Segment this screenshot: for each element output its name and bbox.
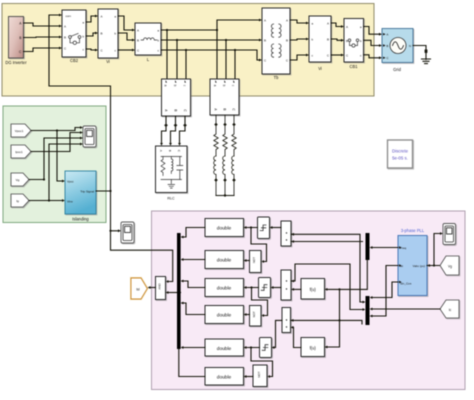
block Relay 3 [259,278,271,298]
junction a-tap1 [166,29,168,31]
block Relay 1 [258,217,270,239]
junction f-branch [338,288,340,290]
wire double5 to bus [184,347,206,349]
tag From Ig [11,194,29,207]
RLC branch a: resistor + inductor [214,115,219,196]
mux bus bar [177,233,181,349]
block Scope3 [443,224,456,245]
svg-text:B: B [174,109,178,111]
block RLC parallel load [156,146,188,193]
block L series branch [135,23,161,55]
wire Vi.b to L.B [118,33,132,40]
wire phase a: L.a to Tb.A with taps [161,20,259,79]
svg-text:A: A [264,19,266,23]
svg-text:Islanding: Islanding [72,217,89,222]
svg-text:b: b [173,85,177,87]
block DG Inverter [9,17,24,59]
svg-text:double: double [217,346,232,352]
svg-text:a: a [213,85,217,87]
svg-text:NOT: NOT [252,311,256,317]
wire Trip Signal down to Scope2 and AND [111,191,173,282]
svg-text:f(u): f(u) [310,345,317,350]
svg-text:Vg: Vg [448,265,452,269]
junction relay1 out [250,226,252,228]
wire Trip Signal to CB2.com [49,15,111,191]
junction a-tap2 [216,29,218,31]
wire relay5 to double5 and NOT6 [247,348,273,377]
junction c-tap2 [234,49,236,51]
wire relay1 to double1 and NOT2 [247,228,267,262]
svg-text:com: com [66,14,72,18]
block powergui Discrete [388,140,413,168]
wire DG.A to CB2.A [24,23,60,26]
wire Vi2.B to CB1.B [331,39,341,40]
tag From Vg right [440,256,459,275]
junction Ig tap [48,199,50,201]
demux bar 1 [366,233,370,260]
svg-text:A: A [286,19,288,23]
wire meas1.B to RLC.B [171,116,176,143]
junction Vg tap [43,178,45,180]
area: green islanding-detection region [3,106,106,223]
tag From Ic right [440,300,459,318]
junction trip-scope2 [109,230,111,232]
wire Vg to Scope1 [29,138,80,180]
svg-text:double: double [217,286,232,292]
block double 6 [205,368,244,386]
junction b-tap1 [176,39,178,41]
wire CB2.a to Vi.A [86,16,95,22]
junction cmp3 wire [338,319,340,321]
junction trip [109,190,111,192]
junction Vg tap [433,264,435,266]
svg-text:B: B [223,108,227,110]
svg-text:Vabc (pu): Vabc (pu) [413,264,425,268]
wire Vi.a to L.A [118,16,132,30]
wire meas1.A to RLC.A [162,116,167,143]
svg-text:A: A [386,33,388,37]
wire Ig to Scope1 and Islanding.Vinv [29,144,80,201]
wire cmp3 upper input [291,320,363,324]
block comparator 1 [281,221,291,246]
svg-text:double: double [217,313,232,319]
svg-text:NOT: NOT [252,257,256,263]
area: pink logic region [152,211,466,390]
wire cmp2 upper input loop [291,264,363,310]
wire cmp2 to relay3 [274,287,282,289]
svg-text:Vpcc: Vpcc [67,180,74,184]
svg-text:CB2: CB2 [70,58,79,63]
wire Ipcc1 to Scope1 [31,133,80,152]
block Tb three-phase transformer [262,8,290,74]
block double 4 [205,306,244,324]
svg-text:N: N [409,44,411,48]
block double 3 [205,279,244,297]
wire PLL.Freq to bar1 [373,247,399,249]
block Relay 5 [260,338,272,358]
svg-text:B: B [101,31,103,35]
svg-text:Vg: Vg [16,178,20,182]
wire f2 to cmp3 lower input [294,327,302,347]
svg-text:A: A [159,150,163,152]
svg-text:Sin_Cos: Sin_Cos [400,282,412,286]
block NOT 6 [253,365,267,387]
svg-text:double: double [217,258,232,264]
wire Ic tag to bar2 [373,308,441,310]
wire relay3 to double3 and NOT4 [247,288,268,316]
wire branch common node [216,195,234,197]
block NOT 4 [250,306,262,327]
svg-text:NOT: NOT [257,371,261,377]
svg-text:Tb: Tb [274,75,280,80]
block Scope1 [83,126,96,147]
svg-text:B: B [386,44,388,48]
wire Vi.c to L.C [118,49,132,51]
wire Tb.C to Vi2.c [290,55,306,60]
wire double2 to bus [184,259,206,261]
svg-text:Ic: Ic [449,308,452,312]
svg-text:Vpcc1: Vpcc1 [15,129,24,133]
ground symbol [425,50,428,53]
wire AND output to lsl [151,287,156,289]
junction relay3 out [250,286,252,288]
svg-text:Vinv: Vinv [67,200,73,204]
svg-text:DG Inverter: DG Inverter [5,60,27,65]
junction Vpcc1 tap [56,129,58,131]
wire Vg tag to PLL.Vabc and Scope3 [427,234,440,266]
junction b-tap2 [225,39,227,41]
wire Tb.B to Vi2.b [290,39,306,40]
svg-text:B: B [64,35,66,39]
wire cmp3 to relay5 [275,320,283,347]
svg-text:A: A [101,14,103,18]
wire PLL.Sin_Cos to bar2 [373,282,399,298]
svg-text:lsl: lsl [136,287,139,291]
tag From Ipcc1 [11,145,31,158]
wire CB2.b to Vi.B [86,33,95,36]
svg-text:B: B [264,39,266,43]
wire NOT4 to double4 [247,314,250,316]
wire meas1.C to RLC.C [180,116,186,143]
block double 1 [205,219,244,237]
block CB2 breaker [62,10,86,57]
wire CB1.b to Grid.B [364,40,380,45]
svg-text:Discrete: Discrete [392,149,409,154]
block Fcn f(u) 2 [301,338,325,357]
svg-text:5e-05 s.: 5e-05 s. [392,156,408,161]
svg-text:AND: AND [157,283,161,290]
junction branches [224,194,226,196]
block Scope2 [121,222,134,243]
svg-text:Vi: Vi [106,59,110,64]
block 3-phase PLL [398,236,427,296]
wire PLL.wt to bar2 [373,266,399,317]
wire cmp1 to relay1 [273,227,282,229]
wire cmp1 upper input from bar2 (up and over) [291,234,363,302]
wire CB2.c to Vi.C [86,49,95,50]
svg-text:A: A [346,25,348,29]
block comparator 2 [281,270,291,300]
wire CB1.c to Grid.C [364,55,380,58]
svg-text:Ipcc1: Ipcc1 [15,150,23,154]
wire NOT6 to double6 [247,376,254,378]
block Islanding subsystem [65,171,96,214]
block AND logical operator [156,277,166,300]
tag From Vpcc1 [11,124,31,137]
svg-text:Grid: Grid [393,67,401,72]
svg-text:B: B [168,150,172,152]
wire DG.C to CB2.C [24,48,60,52]
block comparator 3 [282,308,291,333]
svg-text:3-phase PLL: 3-phase PLL [401,228,425,233]
block three-phase VI measurement 1 [162,79,191,116]
wire Vpcc1 to Scope1 and Islanding.Vpcc [31,128,80,182]
block three-phase VI measurement 2 [210,79,239,115]
svg-text:f(u): f(u) [310,287,317,292]
wire Tb.A to Vi2.a [290,20,306,23]
wire bar1 bottom to f1 and f2 inputs [328,260,368,347]
RLC branch c: resistor + inductor [232,115,237,196]
svg-text:A: A [137,29,139,33]
wire f1 to cmp2 lower input [294,288,301,290]
junction c-tap1 [185,49,187,51]
svg-text:A: A [327,21,329,25]
block Fcn f(u) 1 [301,279,325,300]
block NOT 2 [250,251,262,273]
block Vi measurement 2 [309,16,331,62]
wire Vi2.A to CB1.A [331,23,341,27]
svg-text:double: double [217,375,232,381]
wire double1 to bus [184,228,206,238]
block Vi measurement 1 [98,9,118,58]
block CB1 breaker [344,19,364,63]
svg-text:Ig: Ig [16,199,19,203]
junction relay5 out [250,346,252,348]
area: yellow power-circuit region [2,4,374,97]
svg-text:B: B [327,37,329,41]
wire phase c: L.c to Tb.C with taps [161,50,259,79]
svg-text:Freq: Freq [400,246,407,250]
RLC branch b: resistor + inductor [223,115,228,196]
wire double6 to bus bottom [179,349,205,377]
wire DG.B to CB2.B [24,36,60,39]
svg-text:b: b [222,85,226,87]
svg-text:B: B [137,39,139,43]
tag Goto lsl [131,278,147,299]
svg-text:Trip Signal: Trip Signal [80,189,94,193]
svg-text:B: B [286,39,288,43]
demux bar 2 [366,296,370,325]
block Grid three-phase source [382,29,413,63]
svg-text:Vi: Vi [318,66,322,71]
svg-text:a: a [164,85,168,87]
svg-text:A: A [64,24,66,28]
wire Grid.N to ground [413,46,426,60]
svg-text:CB1: CB1 [350,64,359,69]
tag From Vg [11,173,29,186]
wire double3 to bus [184,281,206,288]
wire CB1.a to Grid.A [364,27,380,35]
wire phase b: L.b to Tb.B with taps [161,40,259,79]
svg-text:RLC: RLC [167,197,175,201]
wire cmp1 lower input from bar1 [291,241,363,243]
wire Vi2.C to CB1.C [331,54,341,56]
svg-text:B: B [346,39,348,43]
wire NOT2 to double2 [247,260,250,262]
block double 5 [205,339,244,356]
svg-text:double: double [217,226,232,232]
block double 2 [205,251,244,269]
wire double4 to bus [184,303,206,315]
wire bus to AND lower input [169,292,181,294]
